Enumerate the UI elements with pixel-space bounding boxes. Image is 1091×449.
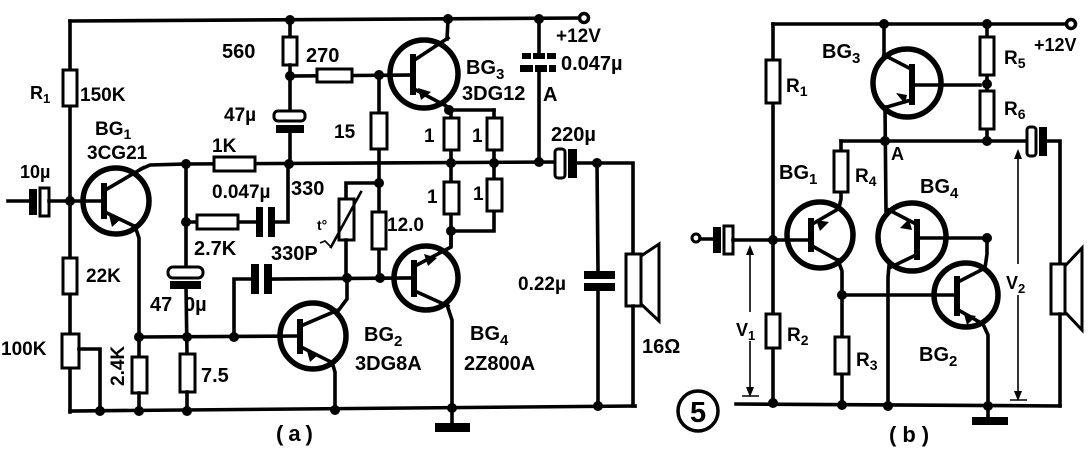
capacitor 470u xyxy=(150,267,207,316)
svg-text:(b): (b) xyxy=(889,422,935,447)
transistor BG4 (b) xyxy=(878,176,959,271)
capacitor 330P xyxy=(234,243,318,337)
resistor R2 xyxy=(766,314,809,348)
speaker (b) xyxy=(1051,248,1082,406)
resistor 15 xyxy=(334,113,387,149)
node 7.5 junction xyxy=(182,332,192,342)
node 560-270 junction xyxy=(285,71,295,81)
wire thermistor elbow xyxy=(346,183,379,199)
capacitor 47u xyxy=(224,105,305,133)
svg-text:560: 560 xyxy=(222,41,255,63)
node main line left 1-ohm xyxy=(446,158,456,168)
wire R1 column (b) xyxy=(771,24,775,240)
svg-text:0.22µ: 0.22µ xyxy=(518,274,566,295)
node supply cap main line junction xyxy=(534,157,544,167)
resistor 2.7K xyxy=(194,215,238,260)
svg-text:+12V: +12V xyxy=(1034,35,1077,55)
capacitor 10u input xyxy=(20,162,50,216)
wire BG4 emitter down (b) xyxy=(888,266,889,406)
resistor R5 xyxy=(980,37,1026,75)
svg-text:1: 1 xyxy=(472,126,483,147)
figure number 5 xyxy=(678,391,718,431)
speaker 16 ohm xyxy=(626,244,680,406)
resistor R1 150K xyxy=(30,70,126,106)
wire 330P to BG4 base xyxy=(272,278,411,279)
wire 7.5 bottom to rail xyxy=(185,392,189,411)
wire output node (a) xyxy=(577,163,633,254)
+12V terminal (a) xyxy=(556,14,601,48)
node 560 rail junction xyxy=(285,15,295,25)
node ground rail junction (b) xyxy=(983,401,993,411)
svg-text:1K: 1K xyxy=(212,136,237,157)
transistor BG3 3DG12A xyxy=(390,38,557,108)
wire right 1-ohm column xyxy=(451,110,494,231)
svg-text:0.047µ: 0.047µ xyxy=(561,53,623,75)
node BG2 collector junction xyxy=(342,273,352,283)
wire top supply rail (a) xyxy=(70,18,580,21)
wire 560 bottom to 47u and main line xyxy=(288,65,292,164)
node 1K left junction xyxy=(181,159,191,169)
resistor R6 xyxy=(980,91,1026,129)
resistor 1 (lower left) xyxy=(427,182,459,214)
svg-text:7.5: 7.5 xyxy=(201,365,229,387)
wire BG2 base line (b) xyxy=(842,293,957,297)
wire BG3 collector to rail xyxy=(447,20,448,39)
svg-text:A: A xyxy=(891,144,904,164)
node R3 junction xyxy=(837,290,847,300)
wire 2.7K to 0.047u cap xyxy=(186,220,256,224)
wire BG2 collector riser xyxy=(338,278,347,311)
wire R2 column (b) xyxy=(771,240,775,403)
svg-text:0.047µ: 0.047µ xyxy=(212,182,271,203)
resistor 1 (upper left) xyxy=(424,118,459,150)
resistor R1 (b) xyxy=(766,60,808,103)
resistor 120 xyxy=(372,212,424,249)
wire BG4 emitter to rail xyxy=(447,305,452,408)
svg-text:150K: 150K xyxy=(80,85,126,106)
resistor 1 (lower right) xyxy=(473,179,502,211)
node supply cap rail junction xyxy=(534,14,544,24)
svg-text:220µ: 220µ xyxy=(551,124,596,146)
node BG4 base junction xyxy=(982,233,992,243)
wire bottom rail (b) xyxy=(736,404,1060,406)
node BG3 rail junction xyxy=(879,19,889,29)
capacitor 0.047u feedback xyxy=(212,182,275,237)
svg-text:47: 47 xyxy=(150,294,172,316)
svg-text:16Ω: 16Ω xyxy=(642,336,680,358)
wire BG3 base column down xyxy=(377,75,381,278)
node 0.22u rail junction xyxy=(593,401,603,411)
wire input stub (b) xyxy=(700,237,713,241)
resistor 7.5 xyxy=(180,354,229,392)
wire input cap to BG1 base (b) xyxy=(733,238,810,242)
wire 0.047u cap up to main line xyxy=(275,164,288,222)
svg-text:1: 1 xyxy=(473,184,484,205)
svg-text:2.7K: 2.7K xyxy=(194,238,237,260)
node wiper-rail junction xyxy=(95,406,105,416)
svg-text:3DG8A: 3DG8A xyxy=(355,353,422,375)
transistor BG2 (b) xyxy=(919,263,998,370)
node BG2 emitter rail junction xyxy=(330,405,340,415)
svg-text:3CG21: 3CG21 xyxy=(87,143,148,164)
node 120 bottom junction xyxy=(375,273,385,283)
resistor 2.4K xyxy=(108,337,147,411)
node output junction xyxy=(592,158,602,168)
transistor BG3 (b) xyxy=(822,41,941,117)
svg-text:330: 330 xyxy=(291,178,324,200)
node base-bias junction xyxy=(65,196,75,206)
node thermistor junction xyxy=(374,178,384,188)
node 7.5 rail junction xyxy=(182,406,192,416)
svg-text:12.0: 12.0 xyxy=(387,215,424,236)
thermistor 330 xyxy=(291,178,361,247)
wire BG2 emitter to ground (b) xyxy=(983,324,988,406)
wire BG1 collector to 1K node xyxy=(141,164,186,169)
resistor R4 xyxy=(834,141,877,192)
resistor 560 xyxy=(222,37,297,65)
capacitor 220u output xyxy=(551,124,596,178)
node BG4 emitter rail junction xyxy=(447,403,457,413)
node 2.7K junction xyxy=(181,217,191,227)
svg-text:t°: t° xyxy=(317,217,327,233)
node R2 rail junction xyxy=(768,398,778,408)
node main line right 1-ohm xyxy=(489,158,499,168)
node R5 R6 junction xyxy=(982,79,992,89)
wire left vertical branch (a) xyxy=(68,21,72,412)
ground symbol (b) xyxy=(972,406,1008,425)
svg-text:15: 15 xyxy=(334,122,356,143)
caption (a) xyxy=(276,421,318,446)
transistor BG1 3CG21 xyxy=(83,119,149,234)
node R3 rail junction xyxy=(837,400,847,410)
wire input cap to BG1 base xyxy=(49,199,103,203)
resistor R3 xyxy=(835,337,878,374)
wire cap to speaker (b) xyxy=(1047,141,1060,264)
node BG4 emitter rail junction (b) xyxy=(883,401,893,411)
node BG3 collector rail junction xyxy=(443,14,453,24)
wire BG3 collector to rail (b) xyxy=(882,24,886,55)
wire BG3 emitter node xyxy=(445,105,494,110)
wire R3 column xyxy=(840,295,844,405)
wire 100K wiper to ground rail xyxy=(79,349,100,412)
voltage arrow V2 xyxy=(1006,149,1027,401)
wire BG1 collector to R4 xyxy=(839,192,841,208)
transistor BG4 2Z800A xyxy=(394,231,535,375)
svg-text:22K: 22K xyxy=(86,266,121,287)
wire thermistor bottom xyxy=(344,240,348,278)
capacitor output coupling (b) xyxy=(1027,127,1047,156)
node emitter-2.4K junction xyxy=(134,332,144,342)
wire 2.7K node column xyxy=(186,164,187,354)
node 47u main-line junction xyxy=(284,159,294,169)
capacitor 0.047u supply xyxy=(520,19,623,162)
svg-text:1: 1 xyxy=(424,126,435,147)
resistor 22K xyxy=(63,258,121,294)
wire BG1 emitter line (a) xyxy=(139,336,298,337)
wire BG3 base to R5R6 xyxy=(915,83,980,87)
svg-text:2.4K: 2.4K xyxy=(108,346,129,386)
svg-text:47µ: 47µ xyxy=(224,105,256,126)
wire 560 top from rail xyxy=(288,20,292,37)
transistor BG1 (b) xyxy=(779,162,853,268)
wire left 1-ohm column xyxy=(449,110,453,245)
caption (b) xyxy=(889,422,935,447)
capacitor input coupling (b) xyxy=(713,226,733,254)
input terminal (b) xyxy=(692,234,700,242)
svg-text:100K: 100K xyxy=(1,339,47,360)
svg-text:10µ: 10µ xyxy=(20,162,50,182)
node 2.4K rail junction xyxy=(134,406,144,416)
svg-text:(a): (a) xyxy=(276,421,318,446)
wire R5 R6 column xyxy=(985,24,989,141)
wire BG2 collector riser (b) xyxy=(985,238,987,268)
resistor 1K xyxy=(212,136,255,171)
svg-text:3DG12: 3DG12 xyxy=(462,83,525,105)
wire 0.22u branch xyxy=(597,163,598,406)
wire BG2 emitter to rail xyxy=(332,362,335,410)
resistor 270 xyxy=(306,45,352,82)
wire BG4 base to bias xyxy=(920,236,987,240)
node BG3 base junction xyxy=(374,70,384,80)
svg-text:270: 270 xyxy=(306,45,339,67)
svg-text:A: A xyxy=(543,84,557,106)
node 330P junction xyxy=(229,332,239,342)
node input bias junction (b) xyxy=(768,235,778,245)
potentiometer 100K xyxy=(1,334,79,368)
wire BG1 emitter down (b) xyxy=(838,260,842,295)
wire main mid line (a) xyxy=(186,162,556,164)
wire input stub (a) xyxy=(8,199,30,203)
wire node A line xyxy=(841,139,1028,143)
wire bottom rail (a) xyxy=(70,406,635,411)
resistor 1 (upper right) xyxy=(472,118,502,150)
svg-text:+12V: +12V xyxy=(556,26,601,47)
svg-text:1: 1 xyxy=(427,187,438,208)
wire 270 to BG3 base xyxy=(290,75,414,76)
svg-text:5: 5 xyxy=(690,397,706,429)
wire BG3 emitter to BG4 collector xyxy=(885,107,886,211)
svg-text:2Z800A: 2Z800A xyxy=(464,353,535,375)
transistor BG2 3DG8A xyxy=(280,303,422,375)
svg-text:330P: 330P xyxy=(271,243,318,265)
ground symbol (a) xyxy=(435,408,470,432)
voltage arrow V1 xyxy=(736,245,759,397)
node A junction xyxy=(880,136,904,164)
capacitor 0.22u xyxy=(518,271,615,295)
svg-text:0µ: 0µ xyxy=(184,294,207,316)
+12V terminal (b) xyxy=(1034,20,1077,56)
node R5 rail junction xyxy=(982,19,992,29)
wire BG1 emitter down xyxy=(135,226,139,337)
node BG3 emitter junction xyxy=(444,105,454,115)
node R6 bottom junction xyxy=(982,136,992,146)
wire top supply rail (b) xyxy=(773,22,1066,26)
node BG4 collector junction xyxy=(446,226,456,236)
